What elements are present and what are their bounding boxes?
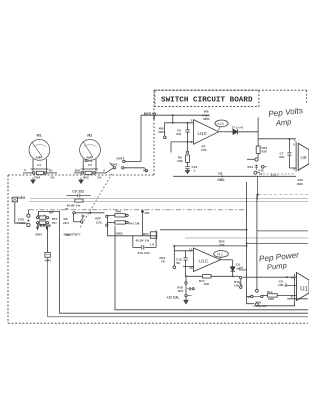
svg-text:NO: NO: [143, 168, 148, 172]
switch SW2 contacts: [73, 212, 108, 227]
svg-text:1%: 1%: [97, 176, 102, 180]
svg-text:SW4: SW4: [35, 233, 42, 237]
svg-text:C8: C8: [279, 279, 283, 283]
svg-text:M1: M1: [37, 134, 42, 138]
switch SW4 cluster resistors: [36, 211, 59, 229]
svg-text:30K: 30K: [256, 300, 262, 304]
resistor R41: [107, 221, 128, 224]
svg-text:49.9K 1%: 49.9K 1%: [67, 203, 81, 207]
capacitor right of D9: [237, 267, 243, 271]
grey bus line 1: [30, 198, 308, 200]
svg-text:PU: PU: [52, 221, 57, 225]
wire riser to dash-dot bus: [142, 210, 144, 236]
meter M1: [29, 140, 50, 172]
resistor R18: [233, 276, 243, 288]
svg-text:-4.13: -4.13: [216, 122, 223, 126]
vertical junction wire V1: [246, 182, 248, 297]
switch circuit board label box: [155, 90, 259, 106]
resistor R14 330K: [263, 294, 297, 297]
svg-text:R40: R40: [116, 210, 122, 214]
board outline dashed: bottom edge: [8, 322, 308, 324]
svg-text:.001: .001: [279, 155, 285, 159]
svg-text:17K: 17K: [201, 148, 207, 152]
switch SW1: [106, 163, 145, 173]
svg-text:SWITCH CIRCUIT BOARD: SWITCH CIRCUIT BOARD: [161, 97, 253, 105]
ground chain U1C: [185, 275, 194, 299]
svg-text:13: 13: [189, 266, 193, 270]
gain ellipse +4.1: [214, 251, 229, 260]
svg-text:+12 CAL: +12 CAL: [167, 296, 180, 300]
svg-text:C2: C2: [88, 159, 92, 163]
svg-text:10K: 10K: [177, 159, 183, 163]
wire NEG terminal to fuse: [15, 202, 27, 223]
svg-text:R04: R04: [35, 176, 41, 180]
wire net2 to lower right section: [257, 230, 308, 232]
wire -input U10: [171, 141, 194, 153]
svg-text:NEG: NEG: [18, 196, 25, 200]
svg-text:10K: 10K: [204, 282, 210, 286]
fuse F1: [27, 210, 30, 227]
wire long vertical to bottom bus: [60, 211, 309, 314]
junction + grey dashed net: [256, 177, 308, 200]
handwriting PEP POWER PUMP: [259, 251, 301, 273]
svg-text:AMP: AMP: [35, 155, 42, 159]
svg-text:C2: C2: [259, 172, 263, 176]
svg-text:NEG: NEG: [144, 112, 152, 116]
gain ellipse -4.13: [215, 120, 228, 131]
diode D7: [219, 129, 259, 134]
op-amp U1D (bottom right): [295, 273, 310, 301]
svg-text:8-05: 8-05: [259, 169, 265, 173]
output + diode D9: [221, 260, 236, 277]
svg-text:.001: .001: [176, 261, 182, 265]
svg-text:4MV: 4MV: [45, 259, 52, 263]
svg-text:1.0M: 1.0M: [278, 283, 284, 287]
svg-text:D8: D8: [218, 171, 222, 175]
svg-text:.001: .001: [176, 132, 182, 136]
switch board dashed top edge: [154, 89, 308, 91]
svg-text:P14: P14: [246, 295, 251, 299]
svg-text:C9 .022: C9 .022: [72, 189, 84, 193]
svg-text:C6: C6: [236, 262, 240, 266]
pot R12: [247, 158, 267, 174]
svg-text:1%: 1%: [50, 176, 55, 180]
svg-text:SW2: SW2: [116, 232, 123, 236]
svg-text:U10: U10: [198, 131, 207, 137]
svg-text:CAL: CAL: [96, 221, 102, 225]
wire battery to bottom bus: [48, 257, 308, 317]
resistor R13: [256, 118, 260, 158]
capacitor C2 (between meters): [85, 160, 87, 162]
svg-text:4: 4: [293, 167, 295, 171]
wire net to lower right section: [247, 242, 308, 244]
svg-text:BAL: BAL: [75, 169, 81, 173]
feedback wire U1D: [287, 298, 308, 300]
wire +input U1C: [173, 245, 248, 251]
svg-text:U1C: U1C: [199, 258, 209, 264]
svg-text:GND: GND: [217, 178, 225, 182]
pot R22 freq adj: [247, 289, 263, 305]
wire SW2 node to right: [156, 230, 247, 236]
capacitor C7: [287, 138, 296, 168]
wire GND net: [173, 175, 296, 177]
meter M2: [80, 140, 101, 172]
svg-text:D10: D10: [298, 178, 304, 182]
svg-text:R1: R1: [49, 169, 53, 173]
terminal W9: [164, 123, 167, 139]
svg-text:.1: .1: [193, 169, 196, 173]
wire +input U10: [165, 114, 194, 123]
battery BT1: [45, 226, 50, 257]
svg-text:7K5: 7K5: [178, 289, 184, 293]
svg-text:Amp: Amp: [274, 117, 291, 128]
resistor R40: [107, 214, 128, 217]
svg-text:1N-48: 1N-48: [236, 125, 244, 129]
svg-text:3: 3: [191, 119, 193, 123]
capacitor C11 .022: [133, 236, 156, 250]
svg-text:SENSITIVITY: SENSITIVITY: [64, 232, 81, 236]
svg-text:2K4: 2K4: [63, 221, 69, 225]
svg-text:12: 12: [189, 247, 193, 251]
wire pot to opamp: [257, 300, 295, 307]
resistor R7A 49.9K: [75, 199, 83, 202]
shunt resistor R5 (under M2): [74, 171, 106, 174]
svg-text:330K: 330K: [268, 297, 274, 301]
terminal box mid-left: [150, 232, 157, 239]
svg-text:C1: C1: [37, 163, 41, 167]
svg-text:5: 5: [293, 142, 295, 146]
svg-text:500: 500: [219, 243, 224, 247]
svg-text:R14: R14: [267, 290, 273, 294]
svg-text:NPK: NPK: [203, 117, 210, 121]
svg-text:10: 10: [291, 275, 295, 279]
handwriting PEP VOLTS AMP: [268, 106, 305, 128]
arrow on bus: [65, 208, 68, 210]
svg-text:45.3K 1%: 45.3K 1%: [136, 239, 150, 243]
svg-text:U1: U1: [300, 287, 308, 293]
capacitor C9 feedback: [185, 122, 189, 142]
svg-text:1N30: 1N30: [297, 182, 304, 186]
svg-text:C5: C5: [243, 268, 247, 272]
wire SW2 cluster node: [108, 217, 157, 236]
dashed wire FULL: [263, 173, 294, 175]
board outline dashed: left edge: [7, 175, 9, 323]
svg-text:R05: R05: [83, 176, 89, 180]
wire +input U1D: [243, 276, 297, 278]
switch board dashed left edge: [153, 90, 155, 175]
svg-text:N2C: N2C: [159, 130, 166, 134]
contact BATT + wire to NEG net: [123, 115, 141, 162]
svg-text:FUSE: FUSE: [17, 221, 25, 225]
ground (M1): [31, 178, 35, 184]
capacitor C8b: [285, 284, 296, 287]
svg-text:MF: MF: [49, 211, 54, 215]
terminal (U1C input): [173, 250, 176, 268]
svg-text:R41 1M: R41 1M: [129, 222, 140, 226]
vertical feed right section: [256, 196, 258, 289]
svg-text:FREQ ADJ: FREQ ADJ: [254, 304, 268, 308]
contact NO: [145, 168, 148, 172]
op-amp U9 (right edge): [293, 139, 309, 172]
svg-text:M2: M2: [87, 134, 92, 138]
dashed edge right top: [306, 90, 308, 104]
shunt resistor R4 (under M1): [23, 171, 57, 174]
wire NEG net: [141, 113, 209, 119]
ground (R9 chain): [185, 171, 189, 174]
svg-text:20K: 20K: [145, 211, 150, 215]
ground (U1C): [184, 300, 188, 304]
svg-text:+4.1: +4.1: [217, 252, 224, 256]
wire SW2 down to bottom bus: [115, 226, 308, 310]
NEG terminal J1: [12, 197, 17, 202]
svg-text:FULL: FULL: [271, 173, 279, 177]
wire -input U1C: [183, 267, 194, 277]
svg-text:U9: U9: [301, 155, 307, 160]
grey net line: [185, 237, 308, 239]
capacitor C16: [183, 250, 187, 266]
capacitor C8 .022 (left): [67, 194, 92, 198]
svg-text:3.: 3.: [24, 168, 27, 172]
svg-text:SW1: SW1: [111, 162, 118, 166]
dash-dot bus line: [29, 209, 247, 211]
svg-text:678 .022: 678 .022: [138, 251, 150, 255]
svg-text:R0x: R0x: [143, 232, 149, 236]
svg-text:2: 2: [191, 140, 193, 144]
op-amp U1C: [194, 248, 221, 272]
svg-text:430: 430: [262, 150, 267, 154]
feedback resistor R17: [186, 275, 233, 278]
wire to U9: [258, 138, 296, 140]
svg-text:R12: R12: [248, 165, 254, 169]
mechanical linkage dashed diagonal: [80, 172, 113, 228]
board outline dashed: meter board top edge: [8, 174, 154, 176]
svg-text:BATT: BATT: [117, 157, 125, 161]
grey bus line 2: [29, 200, 308, 202]
svg-text:C16: C16: [176, 258, 182, 262]
svg-text:C2: C2: [88, 163, 92, 167]
svg-text:J7: J7: [232, 125, 236, 129]
svg-text:100: 100: [234, 284, 239, 288]
ground (M2): [79, 178, 83, 184]
op-amp U10: [194, 120, 219, 145]
resistor R9 chain: [185, 142, 189, 170]
svg-text:9: 9: [291, 294, 293, 298]
